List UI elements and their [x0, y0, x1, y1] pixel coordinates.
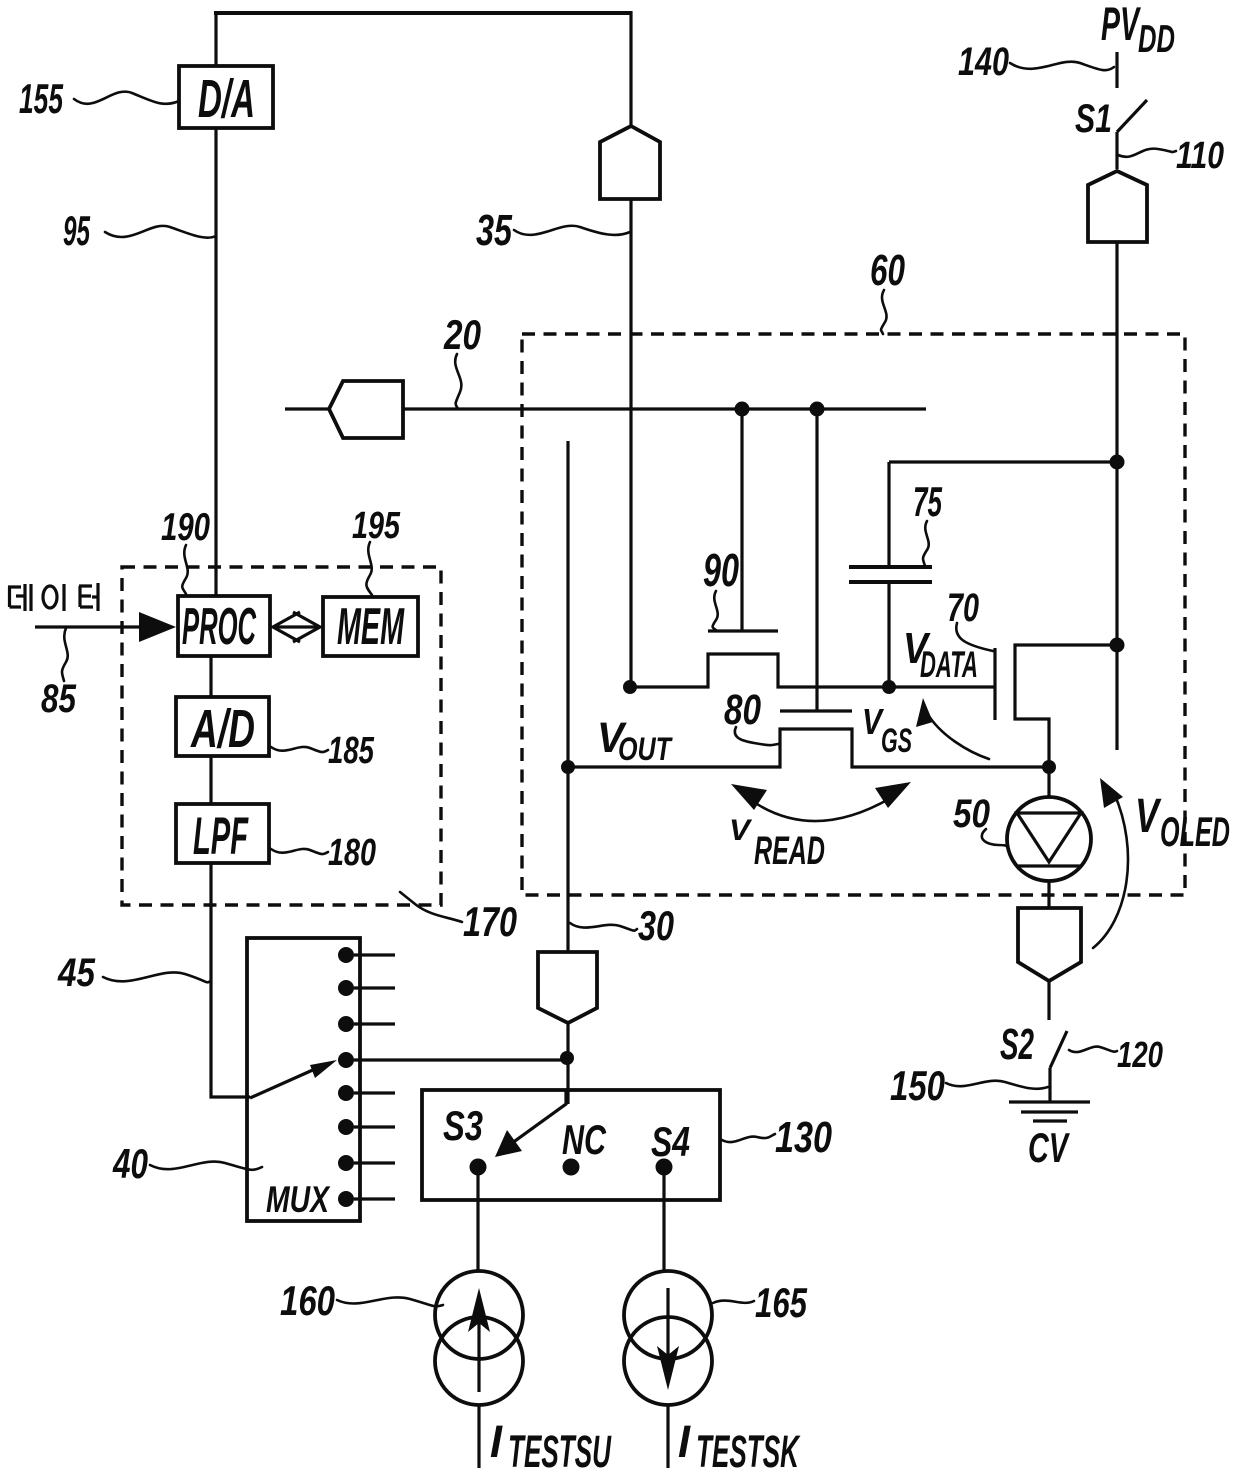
OLED 50 top wire [1047, 767, 1050, 797]
leader 190 [182, 545, 188, 594]
capacitor 75 plates [849, 567, 932, 582]
leader 35 [514, 226, 630, 235]
svg-text:TESTSK: TESTSK [696, 1426, 801, 1476]
leader 70 [956, 623, 993, 651]
svg-text:NC: NC [562, 1116, 606, 1163]
wire Vout column 30 [566, 441, 569, 952]
leader 180 [271, 849, 328, 854]
OLED 50 diode [1007, 797, 1091, 881]
svg-text:75: 75 [913, 478, 942, 525]
leader 130 [722, 1134, 775, 1142]
svg-text:90: 90 [703, 544, 739, 596]
leader 50 [982, 829, 1008, 846]
test box 130 [422, 1090, 720, 1200]
MUX terminal stub wires [354, 955, 395, 1199]
current source 165 [624, 1271, 712, 1405]
pad 110 [1088, 171, 1147, 242]
MUX terminal dots [338, 947, 354, 1207]
pad 35 [600, 126, 660, 199]
node S3 terminal [470, 1159, 487, 1176]
svg-text:PROC: PROC [182, 598, 257, 656]
leader 20 [455, 354, 461, 409]
leader 90 [713, 591, 718, 631]
MUX select arrow [250, 1060, 337, 1098]
label I_TESTSU [490, 1416, 612, 1476]
svg-text:MUX: MUX [266, 1179, 331, 1220]
switch S2 [1000, 1020, 1067, 1102]
switch S1 [1075, 97, 1147, 169]
dashed box 170 measurement unit [122, 567, 441, 905]
wire S3 to current source 160 [476, 1175, 479, 1271]
node dot Vout [561, 760, 575, 774]
svg-text:V: V [1135, 790, 1162, 843]
PVDD terminal bar 140 [1115, 52, 1118, 88]
svg-text:TESTSU: TESTSU [508, 1426, 612, 1476]
current source 160 [435, 1271, 523, 1405]
svg-text:DATA: DATA [920, 644, 978, 685]
label V_GS [862, 701, 912, 760]
svg-text:60: 60 [870, 246, 905, 295]
wire 95 D/A to PROC [214, 128, 217, 596]
node S4 terminal [656, 1159, 673, 1176]
node dot MUX line join [560, 1051, 574, 1065]
leader 120 [1069, 1047, 1117, 1053]
svg-text:95: 95 [63, 207, 90, 254]
wire scan line 20 [403, 407, 926, 410]
label I_TESTSK [678, 1416, 801, 1476]
svg-text:80: 80 [724, 686, 761, 734]
wire below 165 [666, 1405, 669, 1468]
svg-text:PV: PV [1101, 0, 1141, 50]
pad 150 cathode [1018, 908, 1081, 981]
svg-text:S1: S1 [1075, 97, 1112, 141]
svg-text:OLED: OLED [1160, 808, 1230, 855]
svg-text:GS: GS [881, 722, 912, 760]
svg-text:195: 195 [352, 505, 401, 547]
label V_READ [729, 814, 825, 873]
svg-text:190: 190 [161, 506, 210, 549]
svg-text:DD: DD [1138, 18, 1175, 61]
node dot T70 drain on PVDD rail [1110, 638, 1125, 653]
wire capacitor to PVDD rail [889, 460, 1117, 463]
MEM U195 box [323, 597, 418, 656]
svg-text:A/D: A/D [190, 699, 255, 759]
label V_OUT [597, 714, 673, 767]
svg-text:S2: S2 [1000, 1020, 1034, 1069]
leader 40 [150, 1162, 262, 1170]
svg-text:140: 140 [958, 40, 1009, 84]
leader 155 [74, 92, 179, 104]
svg-text:180: 180 [328, 832, 376, 874]
svg-text:170: 170 [463, 898, 517, 945]
V_OLED arc arrow [1093, 778, 1128, 948]
svg-text:110: 110 [1176, 135, 1224, 177]
leader 195 [366, 542, 372, 595]
svg-text:155: 155 [19, 75, 63, 122]
svg-text:READ: READ [754, 829, 825, 873]
node dot capacitor top on PVDD rail [1110, 455, 1125, 470]
transistor 80 channel and source wire [568, 729, 1049, 767]
wire MUX selected line [354, 1058, 567, 1061]
ground CV [1009, 1102, 1090, 1121]
svg-text:S3: S3 [443, 1102, 483, 1149]
leader 45 [103, 972, 211, 982]
LPF U180 box [176, 804, 269, 866]
node dot Vdata at capacitor [882, 680, 896, 694]
leader 150 [946, 1081, 1048, 1089]
leader 80 [735, 727, 778, 745]
dashed box 60 pixel [522, 334, 1185, 895]
svg-text:70: 70 [947, 586, 979, 630]
svg-text:V: V [729, 814, 753, 847]
svg-text:40: 40 [112, 1140, 148, 1187]
wire line 35 upper [629, 11, 632, 126]
svg-text:150: 150 [890, 1062, 945, 1109]
D/A converter U155 box [179, 66, 273, 129]
MUX U40 box [247, 938, 360, 1221]
leader 60 [881, 290, 887, 334]
capacitor 75 top stem [887, 462, 890, 566]
node dot line35 to T90 [623, 680, 637, 694]
svg-text:CV: CV [1028, 1124, 1070, 1171]
transistor 90 channel and node wire [630, 654, 995, 687]
transistor 80 gate bar [780, 709, 852, 712]
svg-text:I: I [678, 1416, 691, 1467]
node NC terminal [563, 1159, 580, 1176]
svg-text:185: 185 [328, 730, 375, 772]
wire A/D to LPF [209, 756, 212, 804]
wire T90 gate drop [740, 409, 743, 631]
leader 75 [923, 521, 929, 566]
svg-text:85: 85 [41, 677, 77, 721]
label V_DATA [903, 624, 978, 685]
svg-text:S4: S4 [651, 1118, 690, 1165]
label data (Korean) [8, 583, 98, 611]
svg-text:120: 120 [1117, 1034, 1163, 1075]
leader 165 [713, 1301, 754, 1303]
svg-text:160: 160 [280, 1277, 335, 1324]
wire PVDD column [1115, 242, 1118, 750]
svg-text:OUT: OUT [618, 731, 673, 767]
wire pad 30 to switch S3 [566, 1023, 569, 1104]
label PV_DD [1101, 0, 1175, 61]
pad 20 [329, 381, 403, 438]
transistor 90 gate bar [708, 629, 778, 632]
wire pad to S2 [1047, 981, 1050, 1020]
transistor 70 gate bar [993, 648, 996, 720]
wire S4 to current source 165 [662, 1175, 665, 1271]
svg-text:165: 165 [755, 1279, 807, 1326]
V_READ arc arrow [731, 782, 911, 821]
leader 85 [62, 628, 68, 681]
A/D U185 box [176, 697, 269, 759]
svg-text:MEM: MEM [337, 598, 405, 656]
leader 110 [1118, 149, 1176, 157]
wire T80 gate drop [815, 409, 818, 711]
wire scan stub left of pad 20 [285, 407, 329, 410]
data input arrowhead [139, 612, 176, 642]
svg-text:20: 20 [443, 311, 481, 358]
node dot source/OLED [1042, 760, 1056, 774]
capacitor 75 bottom stem [887, 583, 890, 687]
svg-text:LPF: LPF [193, 807, 249, 866]
svg-text:130: 130 [775, 1113, 832, 1162]
transistor 70 channel [1015, 645, 1117, 767]
svg-text:30: 30 [638, 902, 674, 949]
svg-text:D/A: D/A [198, 69, 255, 129]
leader 170 [400, 892, 462, 922]
svg-text:45: 45 [57, 951, 95, 995]
leader 185 [271, 747, 328, 752]
label V_OLED [1135, 790, 1230, 855]
V_DATA arrow [916, 698, 989, 759]
wire below 160 [477, 1405, 480, 1468]
leader 140 [1010, 62, 1114, 71]
leader 95 [105, 226, 216, 238]
node scan junction T90 gate [735, 402, 750, 417]
wire line 35 lower [629, 199, 632, 688]
node scan junction T80 gate [810, 402, 825, 417]
svg-text:35: 35 [476, 206, 512, 255]
svg-text:I: I [490, 1416, 503, 1467]
wire PROC to A/D [209, 656, 212, 697]
OLED 50 bottom wire [1047, 881, 1050, 908]
data input wire 85 [35, 625, 145, 628]
wire D/A to top rail [214, 11, 217, 66]
leader 160 [337, 1297, 443, 1306]
bidirectional arrow PROC-MEM [273, 612, 320, 642]
pad 30 [538, 952, 597, 1023]
PROC U190 box [178, 596, 270, 656]
switch S3 arm [495, 1090, 566, 1157]
wire 45 LPF to MUX [209, 863, 250, 1097]
wire top rail from D/A to line 35 [214, 11, 631, 15]
leader 30 [570, 923, 637, 931]
